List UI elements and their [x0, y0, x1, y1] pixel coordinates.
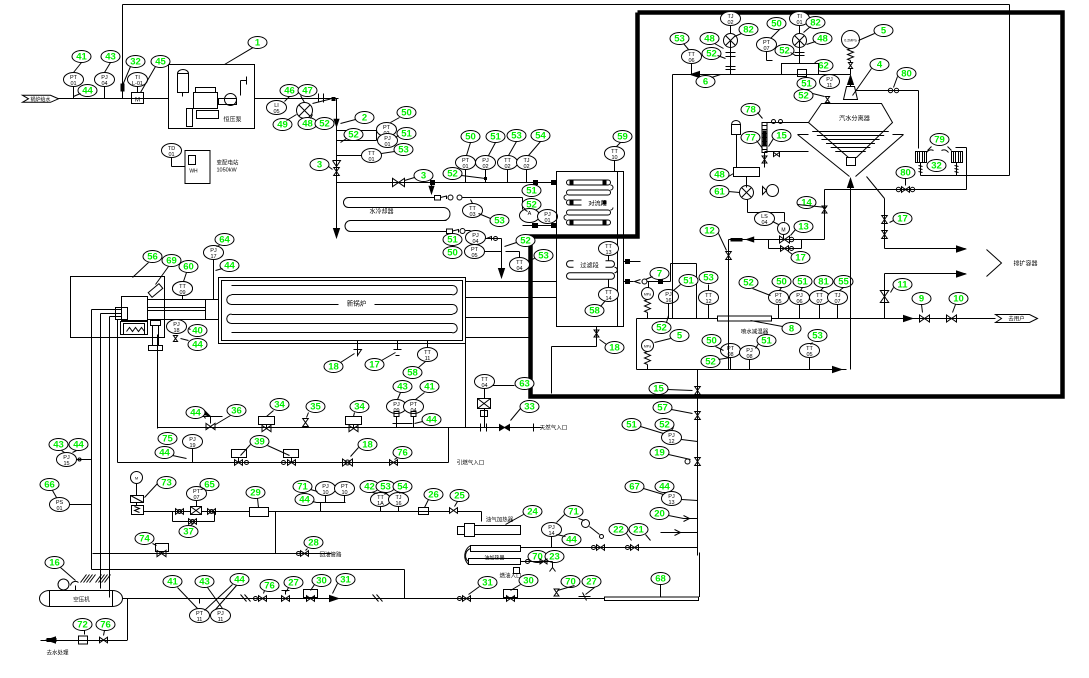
svg-text:53: 53 [703, 273, 714, 284]
svg-text:恒压泵: 恒压泵 [223, 116, 241, 124]
svg-text:68: 68 [655, 574, 666, 585]
svg-text:A: A [528, 211, 532, 217]
svg-text:77: 77 [745, 133, 756, 144]
svg-text:79: 79 [934, 135, 945, 146]
svg-text:15: 15 [63, 461, 69, 467]
svg-text:02: 02 [523, 164, 529, 170]
svg-text:03: 03 [469, 212, 475, 218]
svg-text:01: 01 [168, 152, 174, 158]
svg-text:44: 44 [82, 86, 93, 97]
svg-text:天然气入口: 天然气入口 [540, 424, 568, 432]
svg-text:62: 62 [818, 61, 829, 72]
svg-text:1050kW: 1050kW [217, 168, 238, 174]
svg-text:09: 09 [179, 290, 185, 296]
svg-text:67: 67 [629, 482, 640, 493]
svg-text:18: 18 [328, 362, 339, 373]
svg-text:油加热器: 油加热器 [484, 555, 504, 562]
svg-text:55: 55 [838, 277, 849, 288]
svg-text:52: 52 [447, 169, 458, 180]
svg-text:30: 30 [316, 576, 327, 587]
svg-text:05: 05 [775, 299, 781, 305]
svg-text:31: 31 [340, 575, 351, 586]
svg-text:48: 48 [817, 34, 828, 45]
svg-text:14: 14 [801, 198, 812, 209]
svg-text:13: 13 [798, 222, 809, 233]
svg-text:71: 71 [568, 507, 579, 518]
svg-text:22: 22 [613, 525, 624, 536]
svg-text:34: 34 [274, 400, 285, 411]
svg-text:15: 15 [776, 131, 787, 142]
svg-text:34: 34 [354, 402, 365, 413]
svg-text:32: 32 [130, 57, 141, 68]
svg-text:L-01: L-01 [132, 81, 143, 87]
svg-text:21: 21 [633, 525, 644, 536]
svg-text:53: 53 [674, 34, 685, 45]
svg-text:41: 41 [76, 52, 87, 63]
svg-text:46: 46 [284, 86, 295, 97]
svg-text:27: 27 [586, 577, 597, 588]
svg-text:69: 69 [166, 256, 177, 267]
svg-text:17: 17 [897, 214, 908, 225]
svg-text:18: 18 [362, 440, 373, 451]
svg-text:51: 51 [526, 186, 537, 197]
svg-text:08: 08 [746, 354, 752, 360]
svg-text:50: 50 [771, 19, 782, 30]
svg-text:54: 54 [397, 482, 408, 493]
svg-text:44: 44 [73, 440, 84, 451]
svg-text:42: 42 [364, 482, 375, 493]
svg-text:18: 18 [173, 328, 179, 334]
svg-text:45: 45 [155, 57, 166, 68]
svg-text:54: 54 [535, 131, 546, 142]
svg-text:20: 20 [654, 509, 665, 520]
svg-text:51: 51 [447, 235, 458, 246]
svg-text:36: 36 [231, 406, 242, 417]
svg-text:4: 4 [877, 60, 883, 71]
svg-text:新锅炉: 新锅炉 [347, 299, 367, 308]
svg-text:15: 15 [653, 384, 664, 395]
svg-text:7: 7 [657, 269, 662, 280]
svg-text:53: 53 [494, 216, 505, 227]
svg-text:76: 76 [264, 581, 275, 592]
svg-text:52: 52 [779, 46, 790, 57]
svg-text:13: 13 [668, 500, 674, 506]
svg-text:13: 13 [605, 250, 611, 256]
svg-text:02: 02 [727, 20, 733, 26]
svg-text:10: 10 [953, 294, 964, 305]
svg-text:51: 51 [626, 420, 637, 431]
svg-text:50: 50 [706, 336, 717, 347]
svg-text:10: 10 [341, 490, 347, 496]
svg-text:80: 80 [901, 69, 912, 80]
svg-text:56: 56 [147, 252, 158, 263]
svg-text:引燃气入口: 引燃气入口 [457, 459, 485, 467]
svg-text:M: M [135, 98, 140, 104]
svg-text:16: 16 [49, 558, 60, 569]
svg-text:44: 44 [159, 448, 170, 459]
svg-text:76: 76 [100, 620, 111, 631]
svg-text:过滤段: 过滤段 [580, 262, 599, 270]
svg-text:41: 41 [424, 382, 435, 393]
svg-text:82: 82 [743, 25, 754, 36]
svg-text:58: 58 [589, 306, 600, 317]
svg-text:锅炉给水: 锅炉给水 [30, 96, 50, 103]
svg-text:11: 11 [897, 280, 908, 291]
svg-text:11: 11 [827, 83, 833, 89]
svg-text:04: 04 [516, 266, 522, 272]
svg-text:44: 44 [234, 575, 245, 586]
svg-text:17: 17 [369, 360, 380, 371]
svg-text:30: 30 [523, 576, 534, 587]
svg-text:60: 60 [183, 262, 194, 273]
svg-text:07: 07 [763, 46, 769, 52]
svg-text:02: 02 [482, 164, 488, 170]
svg-text:43: 43 [397, 382, 408, 393]
svg-text:MPa: MPa [644, 293, 651, 297]
svg-text:51: 51 [401, 129, 412, 140]
svg-text:排扩容器: 排扩容器 [1013, 260, 1037, 268]
svg-text:81: 81 [818, 277, 829, 288]
svg-text:1A: 1A [377, 501, 384, 507]
svg-text:M: M [781, 228, 785, 234]
svg-text:44: 44 [299, 495, 310, 506]
svg-text:32: 32 [931, 161, 942, 172]
svg-text:64: 64 [219, 235, 230, 246]
svg-text:07: 07 [834, 299, 840, 305]
svg-text:01: 01 [462, 164, 468, 170]
svg-text:19: 19 [654, 448, 665, 459]
svg-text:47: 47 [302, 86, 313, 97]
svg-text:53: 53 [538, 251, 549, 262]
svg-text:73: 73 [161, 478, 172, 489]
svg-text:78: 78 [745, 105, 756, 116]
svg-text:01: 01 [544, 218, 550, 224]
svg-text:6: 6 [703, 77, 708, 88]
svg-text:水冷却器: 水冷却器 [369, 208, 393, 216]
svg-text:28: 28 [308, 538, 319, 549]
svg-text:44: 44 [659, 482, 670, 493]
svg-text:去用户: 去用户 [1008, 315, 1025, 323]
svg-text:11: 11 [218, 617, 224, 623]
svg-text:82: 82 [810, 18, 821, 29]
svg-text:52: 52 [705, 357, 716, 368]
svg-text:去水处理: 去水处理 [46, 649, 69, 657]
svg-text:66: 66 [44, 480, 55, 491]
svg-text:10: 10 [322, 490, 328, 496]
svg-text:05: 05 [273, 109, 279, 115]
svg-text:37: 37 [183, 527, 194, 538]
svg-text:57: 57 [657, 403, 668, 414]
svg-text:1: 1 [255, 38, 261, 49]
svg-text:53: 53 [812, 331, 823, 342]
svg-text:52: 52 [656, 323, 667, 334]
svg-text:51: 51 [801, 79, 812, 90]
svg-text:16: 16 [395, 501, 401, 507]
svg-text:3: 3 [421, 171, 426, 182]
svg-text:14: 14 [605, 296, 611, 302]
svg-text:53: 53 [511, 131, 522, 142]
svg-text:44: 44 [190, 408, 201, 419]
svg-text:35: 35 [310, 402, 321, 413]
svg-text:44: 44 [566, 535, 577, 546]
svg-text:07: 07 [193, 495, 199, 501]
svg-text:12: 12 [704, 226, 715, 237]
svg-text:空压机: 空压机 [73, 596, 90, 604]
svg-text:43: 43 [105, 52, 116, 63]
svg-text:11: 11 [197, 617, 203, 623]
svg-text:3: 3 [317, 160, 322, 171]
svg-text:5: 5 [881, 26, 887, 37]
svg-text:52: 52 [798, 91, 809, 102]
svg-text:72: 72 [77, 620, 88, 631]
svg-text:50: 50 [465, 132, 476, 143]
svg-text:MPa: MPa [644, 345, 651, 349]
svg-text:25: 25 [454, 491, 465, 502]
svg-text:WH: WH [189, 169, 198, 175]
svg-text:05: 05 [806, 352, 812, 358]
svg-text:燃油入口: 燃油入口 [499, 572, 521, 580]
svg-text:06: 06 [688, 58, 694, 64]
svg-text:04: 04 [481, 383, 487, 389]
svg-text:0.2MPa: 0.2MPa [844, 39, 856, 43]
svg-text:26: 26 [428, 490, 439, 501]
svg-text:5: 5 [677, 331, 683, 342]
svg-text:汽水分离器: 汽水分离器 [839, 115, 871, 123]
svg-text:51: 51 [490, 132, 501, 143]
svg-text:16: 16 [665, 298, 671, 304]
svg-text:48: 48 [714, 170, 725, 181]
svg-text:05: 05 [471, 253, 477, 259]
svg-text:43: 43 [199, 577, 210, 588]
svg-text:回油管路: 回油管路 [319, 551, 342, 559]
svg-text:27: 27 [288, 578, 299, 589]
svg-text:06: 06 [796, 299, 802, 305]
svg-text:9: 9 [919, 294, 924, 305]
svg-text:39: 39 [254, 437, 265, 448]
svg-text:52: 52 [659, 420, 670, 431]
svg-text:04: 04 [101, 81, 107, 87]
svg-text:50: 50 [447, 248, 458, 259]
svg-text:44: 44 [426, 415, 437, 426]
svg-text:59: 59 [617, 132, 628, 143]
svg-text:51: 51 [761, 336, 772, 347]
svg-text:53: 53 [398, 145, 409, 156]
svg-text:17: 17 [795, 253, 806, 264]
svg-text:52: 52 [348, 130, 359, 141]
svg-text:61: 61 [714, 187, 725, 198]
svg-text:44: 44 [192, 340, 203, 351]
svg-text:29: 29 [250, 488, 261, 499]
svg-text:80: 80 [900, 168, 911, 179]
svg-text:变配电站: 变配电站 [217, 159, 240, 167]
svg-text:18: 18 [609, 343, 620, 354]
svg-text:71: 71 [297, 482, 308, 493]
svg-text:24: 24 [527, 507, 538, 518]
svg-text:17: 17 [210, 254, 216, 260]
svg-text:51: 51 [797, 277, 808, 288]
svg-text:40: 40 [192, 326, 203, 337]
svg-text:49: 49 [277, 120, 288, 131]
svg-text:31: 31 [482, 578, 493, 589]
svg-text:01: 01 [56, 506, 62, 512]
svg-text:01: 01 [70, 81, 76, 87]
svg-text:58: 58 [407, 368, 418, 379]
svg-text:51: 51 [683, 276, 694, 287]
svg-text:2: 2 [362, 113, 367, 124]
svg-text:76: 76 [397, 448, 408, 459]
svg-text:50: 50 [401, 108, 412, 119]
svg-text:52: 52 [706, 49, 717, 60]
svg-text:11: 11 [425, 356, 431, 362]
svg-text:12: 12 [668, 439, 674, 445]
svg-text:33: 33 [524, 402, 535, 413]
svg-text:04: 04 [761, 220, 767, 226]
svg-text:07: 07 [816, 299, 822, 305]
svg-text:43: 43 [53, 440, 64, 451]
svg-text:74: 74 [139, 534, 150, 545]
svg-text:01: 01 [368, 157, 374, 163]
svg-text:48: 48 [302, 119, 313, 130]
svg-text:01: 01 [796, 20, 802, 26]
svg-text:44: 44 [224, 261, 235, 272]
svg-text:14: 14 [548, 531, 554, 537]
svg-text:8: 8 [789, 324, 794, 335]
svg-text:02: 02 [504, 164, 510, 170]
svg-text:75: 75 [162, 434, 173, 445]
svg-text:48: 48 [704, 34, 715, 45]
svg-text:41: 41 [167, 577, 178, 588]
svg-text:52: 52 [319, 119, 330, 130]
svg-text:12: 12 [705, 299, 711, 305]
svg-text:M: M [135, 476, 138, 481]
svg-text:19: 19 [189, 443, 195, 449]
svg-text:53: 53 [380, 482, 391, 493]
svg-text:10: 10 [611, 155, 617, 161]
svg-text:01: 01 [384, 142, 390, 148]
svg-text:52: 52 [520, 236, 531, 247]
svg-text:52: 52 [743, 278, 754, 289]
svg-text:65: 65 [204, 480, 215, 491]
svg-text:50: 50 [776, 277, 787, 288]
svg-text:63: 63 [519, 379, 530, 390]
